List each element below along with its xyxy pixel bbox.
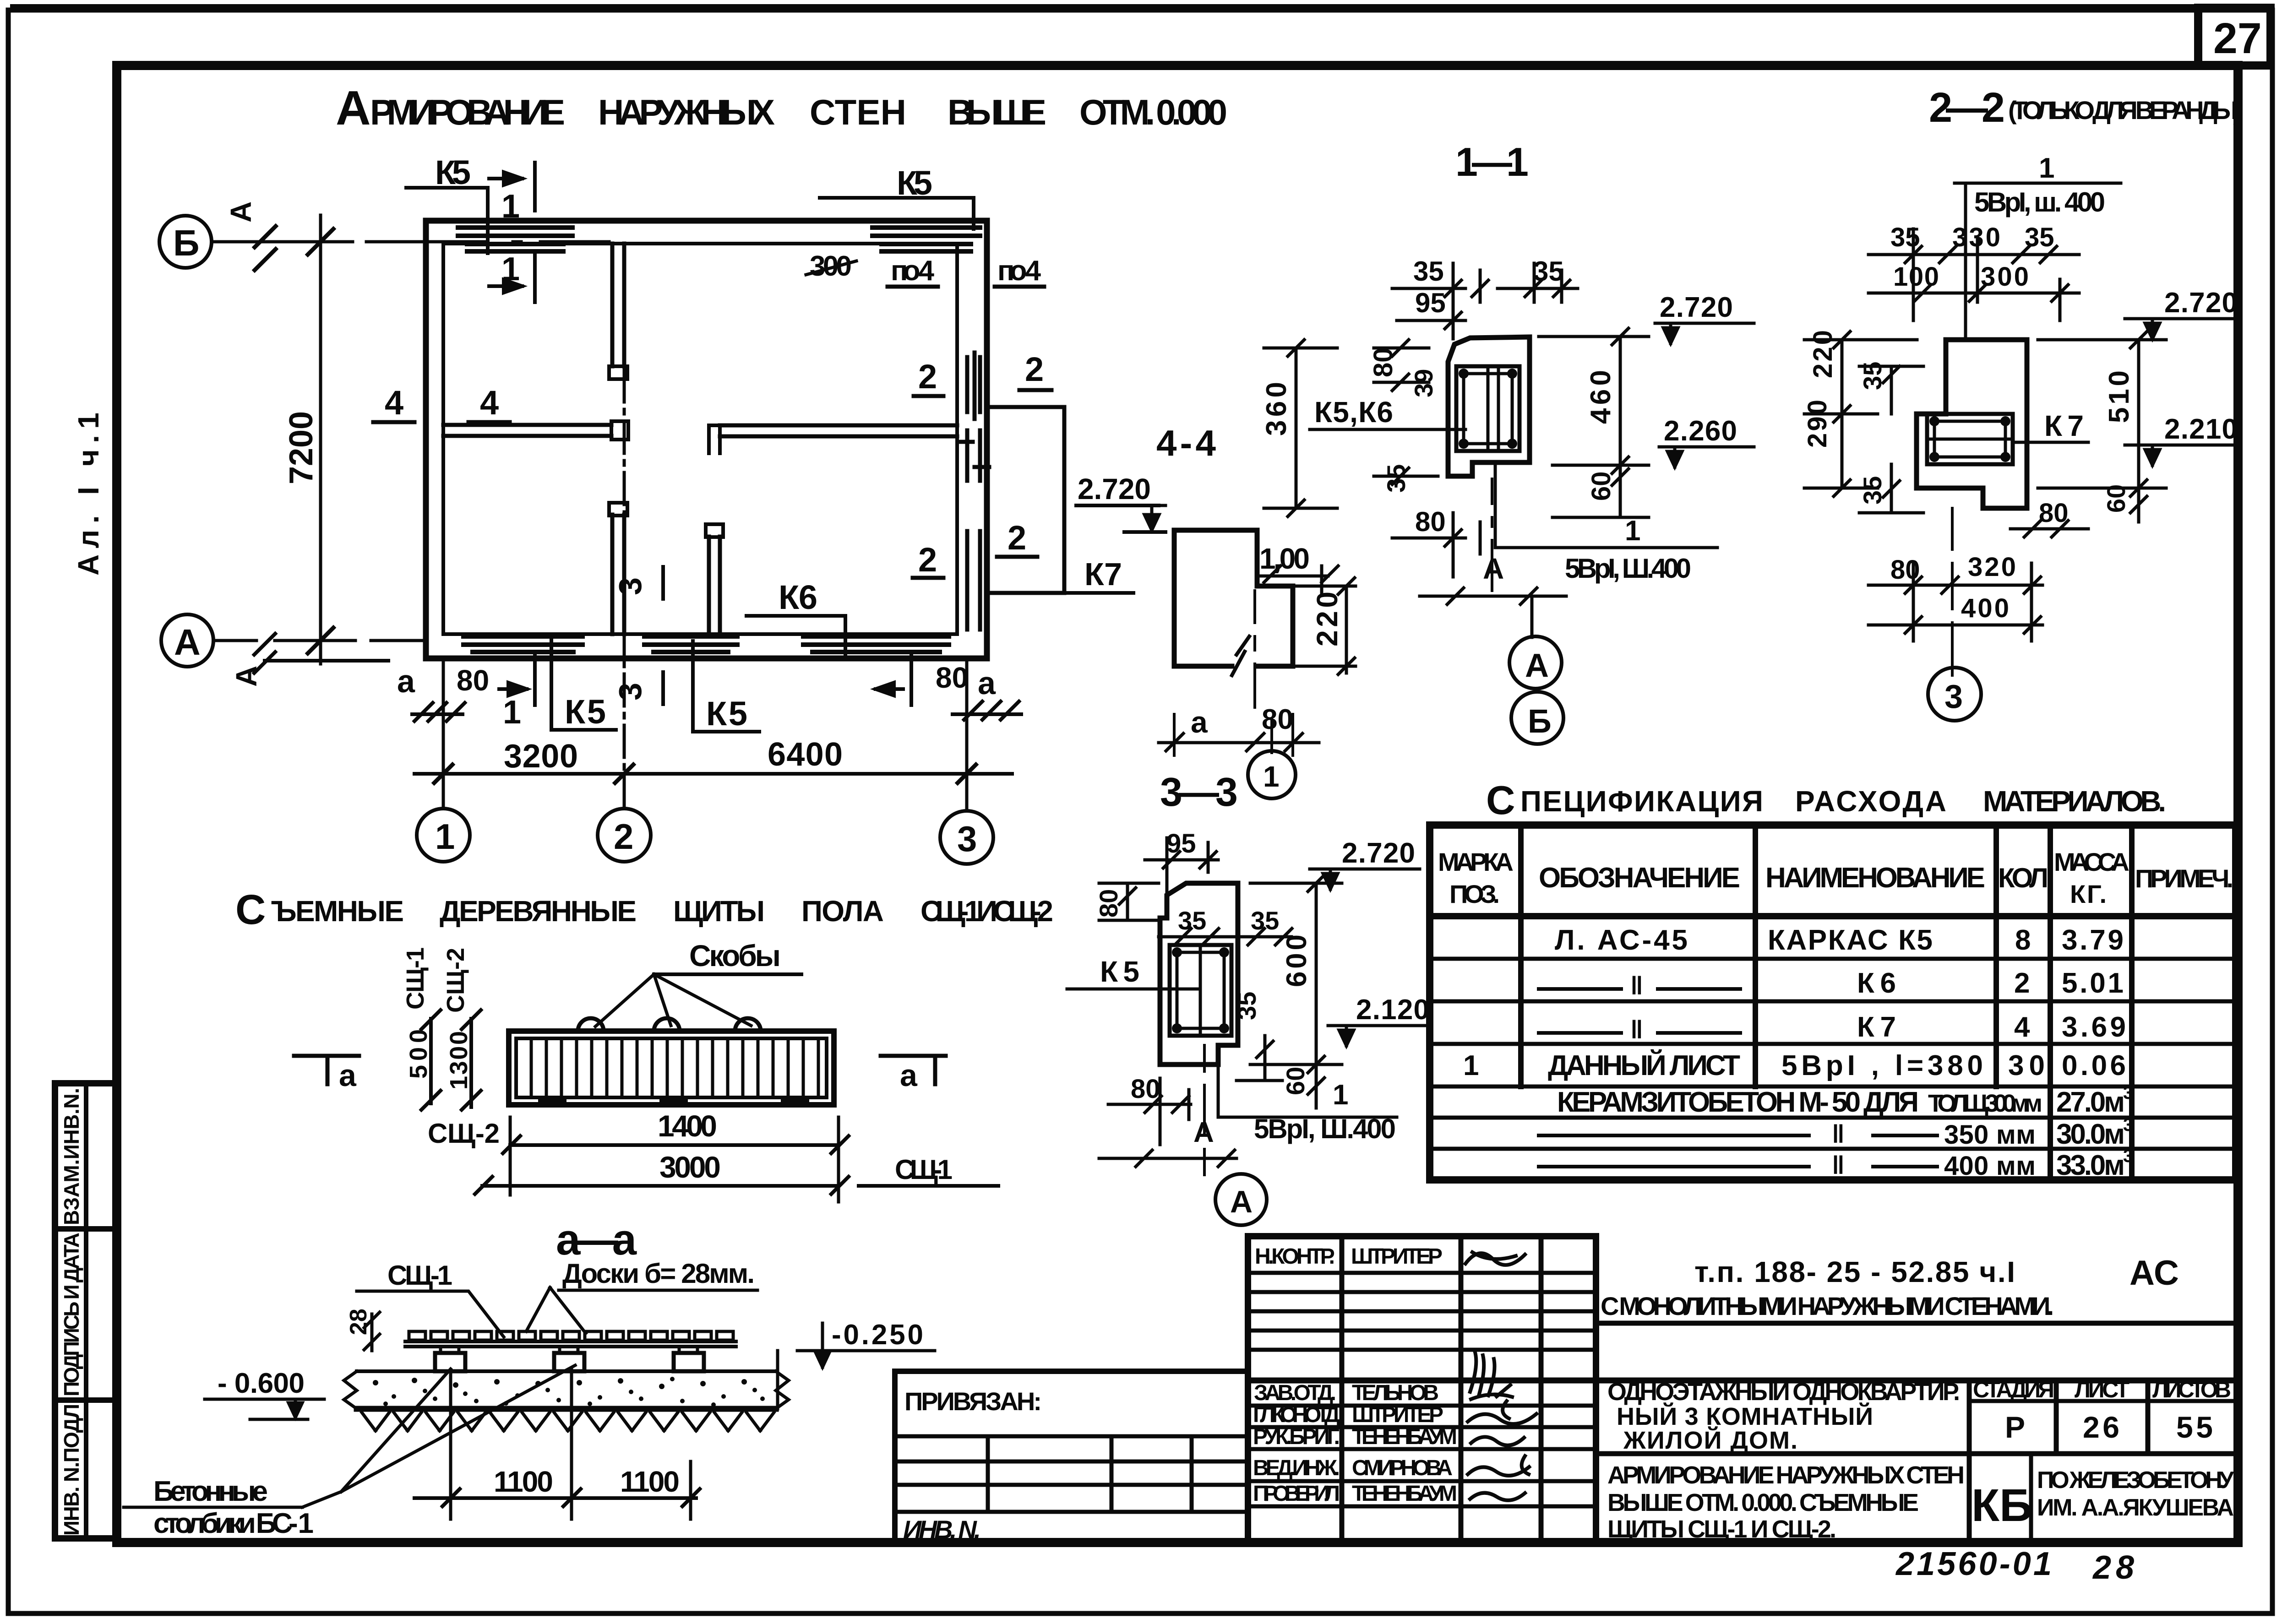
vertical dim lines for 500/1300 [421, 1010, 481, 1110]
svg-text:СЩ- 1 И СЩ- 2: СЩ- 1 И СЩ- 2 [920, 895, 1053, 928]
svg-text:‖: ‖ [1832, 1151, 1845, 1179]
svg-text:4: 4 [385, 384, 403, 422]
svg-text:КОЛ: КОЛ [1998, 863, 2048, 893]
svg-text:60: 60 [1281, 1067, 1310, 1095]
svg-text:3000: 3000 [659, 1150, 721, 1184]
inner wall bottom line [443, 632, 957, 636]
svg-text:а—а: а—а [556, 1215, 637, 1264]
svg-text:а: а [900, 1058, 918, 1093]
svg-text:по 4: по 4 [891, 255, 935, 287]
door jamb cap horizontal wall left [611, 421, 628, 440]
interior wall vertical upper (axis 2) [612, 244, 624, 366]
svg-text:2.720: 2.720 [1342, 837, 1415, 869]
svg-text:(ТОЛЬКО ДЛЯ ВЕРАНДЫ): (ТОЛЬКО ДЛЯ ВЕРАНДЫ) [2008, 96, 2242, 125]
2-2 elevation 2.210 [2125, 413, 2239, 465]
svg-text:600: 600 [1281, 934, 1313, 987]
svg-text:1: 1 [501, 188, 520, 225]
3-3 cage mid bar [1199, 945, 1202, 1036]
svg-text:ИМ. А.А.ЯКУШЕВА: ИМ. А.А.ЯКУШЕВА [2037, 1494, 2234, 1521]
bottom dimension line 3200/6400 [414, 772, 1012, 776]
svg-text:АС: АС [2130, 1254, 2179, 1293]
rebar hatch right wall lower [967, 531, 980, 630]
section mark 2 lower inside [913, 541, 943, 579]
section mark 2 upper outside [1019, 350, 1051, 390]
svg-text:3: 3 [2123, 1083, 2133, 1103]
3-3 dim 95 [1145, 829, 1218, 897]
svg-text:- 0.600: - 0.600 [218, 1368, 305, 1399]
inner wall left line [441, 244, 445, 634]
earth hatch [362, 1412, 774, 1431]
deck strip [405, 1342, 736, 1347]
3-3 rebar leader 1 [1218, 1065, 1397, 1117]
svg-text:1100: 1100 [494, 1465, 553, 1498]
svg-text:ПЕЦИФИКАЦИЯ: ПЕЦИФИКАЦИЯ [1520, 785, 1763, 818]
panel hook 1 [578, 1018, 604, 1031]
door jamb cap lower wall [609, 503, 627, 516]
svg-text:С: С [1486, 777, 1515, 823]
svg-text:95: 95 [1166, 829, 1196, 858]
svg-text:Н.КОНТР.: Н.КОНТР. [1255, 1244, 1335, 1269]
svg-text:220: 220 [1808, 330, 1838, 378]
1-1 bottom ticks [1420, 588, 1566, 637]
2-2 elevation 2.720 [2125, 287, 2239, 339]
label Бетонные столбики БС-1 [153, 1476, 314, 1539]
svg-text:320: 320 [1968, 552, 2016, 582]
dim 28 rotated [345, 1309, 380, 1351]
3-3 rebar cage inner [1177, 952, 1224, 1028]
svg-text:А: А [174, 622, 201, 663]
svg-text:0.06: 0.06 [2062, 1050, 2126, 1081]
svg-text:Б: Б [1528, 703, 1552, 740]
svg-text:ОТМ. 0.000: ОТМ. 0.000 [1079, 92, 1227, 132]
svg-text:2: 2 [1008, 519, 1026, 557]
svg-text:ЪЕМНЫЕ: ЪЕМНЫЕ [271, 895, 404, 928]
svg-text:ШТРИТЕР: ШТРИТЕР [1352, 1403, 1443, 1427]
svg-text:1400: 1400 [658, 1109, 717, 1143]
label Доски б=28мм [526, 1258, 757, 1333]
1-1 rebar leader 1 [1495, 462, 1717, 548]
svg-text:4-4: 4-4 [1156, 423, 1216, 463]
svg-text:т.п. 188- 25 - 52.85 ч.I: т.п. 188- 25 - 52.85 ч.I [1694, 1255, 2015, 1288]
section mark 2 lower outside [997, 519, 1037, 557]
svg-text:ПРИМЕЧ.: ПРИМЕЧ. [2135, 864, 2233, 893]
svg-text:Бетонные: Бетонные [153, 1476, 268, 1507]
svg-text:А: А [336, 81, 371, 135]
svg-text:3: 3 [2123, 1115, 2133, 1135]
svg-text:РУК.БРИГ.: РУК.БРИГ. [1253, 1425, 1340, 1449]
организация [2037, 1467, 2234, 1521]
svg-text:3200: 3200 [504, 738, 578, 775]
section mark 1 top outer [489, 163, 535, 211]
svg-text:НЫЙ 3 КОМНАТНЫЙ: НЫЙ 3 КОМНАТНЫЙ [1617, 1402, 1873, 1430]
1-1 wall profile [1448, 337, 1530, 476]
svg-text:3: 3 [612, 577, 648, 595]
2-2 axis circle 3 [1928, 668, 1981, 721]
axis circle 3 [940, 811, 993, 864]
panel inner rect [516, 1038, 827, 1097]
svg-text:ТЕНЕНБАУМ: ТЕНЕНБАУМ [1352, 1482, 1457, 1506]
2-2 axis line down to circle 3 [1951, 508, 1954, 675]
svg-text:ВЫШЕ ОТМ. 0.000. СЪЕМНЫЕ: ВЫШЕ ОТМ. 0.000. СЪЕМНЫЕ [1607, 1489, 1919, 1516]
axis 2 vertical line [623, 244, 626, 809]
2-2 dim 60 rotated [2102, 484, 2147, 522]
2-2 dim 35 rotated lower [1858, 464, 1923, 513]
spec header МАССА КГ [2054, 847, 2130, 908]
interior wall vertical small (lower middle) [709, 537, 720, 634]
svg-text:1100: 1100 [620, 1465, 680, 1498]
svg-text:ПРОВЕРИЛ: ПРОВЕРИЛ [1253, 1482, 1340, 1506]
axis А circle [161, 614, 213, 667]
axis 1 vertical line [442, 658, 445, 809]
svg-text:2.260: 2.260 [1664, 415, 1737, 447]
2-2 dim 290 rotated [1803, 340, 1917, 496]
dim ticks bottom-left [412, 703, 465, 721]
3-3 К5 label [1067, 955, 1200, 989]
spec row 5: Керамзитобетон М-50 для толщ.300мм 27.0м3 [1557, 1083, 2133, 1118]
svg-text:500: 500 [405, 1029, 432, 1079]
main block grid [1596, 1380, 2236, 1543]
svg-text:8: 8 [2015, 924, 2031, 956]
rebar hatch bottom-middle [644, 636, 737, 652]
svg-text:5.01: 5.01 [2062, 967, 2124, 999]
svg-text:2: 2 [918, 358, 937, 396]
label по 4 outer [995, 255, 1044, 287]
svg-text:460: 460 [1585, 370, 1617, 424]
svg-text:220: 220 [1311, 592, 1344, 646]
label СЩ-1 dim [859, 1154, 998, 1186]
svg-text:А: А [224, 201, 257, 223]
svg-text:3: 3 [612, 683, 648, 701]
3-3 elevation 2.120 [1328, 994, 1429, 1046]
axis circle 1 [417, 809, 470, 862]
outer wall right [984, 221, 990, 658]
2-2 cage mid bar [1927, 438, 2013, 441]
svg-text:столбики БС- 1: столбики БС- 1 [153, 1508, 314, 1539]
elevation -0.250 [778, 1319, 935, 1409]
К5 leader top-left [406, 188, 488, 253]
К6 label [746, 578, 845, 655]
door cap small wall [706, 524, 723, 537]
svg-text:а: а [339, 1058, 357, 1093]
стадия лист листов headers [1973, 1377, 2231, 1402]
svg-text:100: 100 [1893, 262, 1939, 292]
1-1 elevation 2.720 [1655, 292, 1754, 343]
2-2 dim 80 right [2010, 498, 2088, 537]
deck boards row [409, 1331, 733, 1340]
svg-text:Р: Р [2005, 1410, 2025, 1444]
svg-text:1,00: 1,00 [1259, 542, 1310, 575]
panel feet [538, 1099, 809, 1105]
svg-text:СМИРНОВА: СМИРНОВА [1352, 1456, 1453, 1480]
svg-text:А: А [1230, 1184, 1253, 1219]
dim ticks on 7200 [308, 229, 333, 653]
section mark 2 upper inside [914, 358, 943, 396]
cut mark Та left [294, 1056, 359, 1093]
concrete band bottom line [357, 1406, 776, 1412]
panel hook 3 [735, 1018, 761, 1031]
label 300 crossed [806, 250, 856, 282]
svg-text:К5: К5 [435, 153, 471, 191]
svg-text:ЛИСТОВ: ЛИСТОВ [2152, 1377, 2231, 1402]
svg-text:С МОНОЛИТНЫМИ НАРУЖНЫМИ СТЕН: С МОНОЛИТНЫМИ НАРУЖНЫМИ СТЕНАМИ. [1601, 1292, 2054, 1320]
project cell top [1596, 1321, 2236, 1326]
svg-text:ЖИЛОЙ ДОМ.: ЖИЛОЙ ДОМ. [1623, 1426, 1797, 1454]
svg-text:ВЕД.ИНЖ.: ВЕД.ИНЖ. [1253, 1456, 1340, 1480]
svg-text:ПОЗ.: ПОЗ. [1449, 880, 1500, 908]
svg-text:КБ: КБ [1972, 1480, 2032, 1531]
svg-text:2: 2 [614, 816, 633, 857]
svg-text:СЩ-1: СЩ-1 [895, 1154, 953, 1185]
svg-text:2.210: 2.210 [2164, 413, 2238, 445]
dim ticks bottom-right [953, 701, 1021, 720]
section mark 3 lower [612, 672, 663, 704]
svg-text:80: 80 [936, 661, 968, 694]
interior wall horizontal left [443, 425, 611, 436]
svg-text:‖: ‖ [1630, 1015, 1643, 1044]
2-2 cage dots [1929, 416, 2010, 462]
3-3 dash axis down [1203, 1045, 1206, 1175]
axis Б dash-dot line [212, 240, 609, 244]
svg-text:‖: ‖ [1832, 1119, 1845, 1148]
svg-text:А: А [1525, 647, 1549, 684]
svg-text:3.79: 3.79 [2062, 924, 2124, 956]
signature table [1248, 1236, 1596, 1543]
2-2 rebar cage outer [1927, 414, 2013, 464]
3-3 dim 35 rotated lower [1232, 992, 1282, 1081]
panel outer rect [509, 1031, 834, 1105]
1-1 cage mid vertical bar [1488, 366, 1498, 451]
3-3 dim 80 bottom [1108, 1074, 1191, 1145]
dim 3000 [475, 1117, 849, 1202]
svg-text:35: 35 [1890, 223, 1920, 252]
1-1 dim 80 bottom [1392, 506, 1480, 577]
section cut ticks right wall middle [958, 430, 989, 481]
svg-text:К6: К6 [779, 578, 817, 616]
interior wall vertical lower (axis 2) [612, 515, 624, 634]
svg-text:2: 2 [918, 541, 937, 579]
spec row 7: -"- 400мм 33.0м3 [1539, 1146, 2133, 1181]
svg-text:80: 80 [1890, 555, 1920, 585]
axis circle 1 (4-4) [1248, 751, 1296, 798]
svg-text:1: 1 [435, 816, 455, 857]
svg-text:300: 300 [1981, 262, 2029, 292]
svg-text:ПОЛА: ПОЛА [801, 895, 884, 928]
cut mark аТ right [881, 1056, 946, 1093]
dim 1400 [503, 1109, 849, 1153]
svg-text:-0.250: -0.250 [832, 1319, 923, 1351]
elevation -0.600 [205, 1368, 324, 1419]
svg-text:К7: К7 [1084, 556, 1122, 592]
svg-text:ЗАВ.ОТД.: ЗАВ.ОТД. [1254, 1381, 1336, 1405]
svg-text:5ВрI, Ш.400: 5ВрI, Ш.400 [1254, 1113, 1396, 1144]
veranda column outline [987, 407, 1064, 593]
svg-text:7200: 7200 [283, 411, 320, 484]
inner wall top line [443, 242, 957, 245]
svg-text:‖: ‖ [1630, 971, 1643, 1000]
стадия лист листов values [2005, 1410, 2213, 1444]
break mark left [344, 1371, 357, 1409]
2-2 wall profile [1917, 340, 2027, 508]
svg-text:СЩ-1: СЩ-1 [387, 1260, 452, 1291]
svg-text:ОБОЗНАЧЕНИЕ: ОБОЗНАЧЕНИЕ [1539, 862, 1740, 894]
2-2 dim 510 rotated [2038, 331, 2166, 496]
svg-text:ТЕНЕНБАУМ: ТЕНЕНБАУМ [1352, 1425, 1457, 1449]
svg-text:5ВрI, Ш.400: 5ВрI, Ш.400 [1565, 553, 1691, 584]
section mark 1 bottom-left pair [499, 655, 535, 705]
svg-text:Л. АС-45: Л. АС-45 [1555, 924, 1688, 956]
leader lines to posts [124, 1365, 575, 1507]
vertical dimension line 7200 [293, 215, 353, 664]
svg-text:ОДНОЭТАЖНЫЙ ОДНОКВАРТИР.: ОДНОЭТАЖНЫЙ ОДНОКВАРТИР. [1607, 1378, 1960, 1406]
svg-text:КЕРАМЗИТОБЕТОН М- 50 ДЛЯ: КЕРАМЗИТОБЕТОН М- 50 ДЛЯ [1557, 1086, 1919, 1118]
label Скобы [595, 939, 801, 1027]
spec row 6: -"- 350мм 30.0м3 [1539, 1115, 2133, 1150]
elevation 2.720 plan [1076, 473, 1166, 532]
section mark 4 left outside [373, 384, 414, 422]
door jamb L horizontal wall right [709, 425, 720, 453]
concrete band stipple [373, 1377, 765, 1407]
а 80 dim under 4-4 [1159, 704, 1319, 755]
3-3 dim 60 rotated [1281, 1065, 1324, 1108]
section mark 1 bottom right [876, 655, 911, 705]
1-1 dim 60 rotated [1552, 465, 1649, 517]
svg-text:5ВрI, ш. 400: 5ВрI, ш. 400 [1974, 187, 2105, 217]
break mark in 4-4 bottom [1232, 636, 1249, 675]
svg-text:80: 80 [1415, 506, 1446, 537]
2-2 dim 80 bottom [1868, 555, 2042, 593]
svg-text:МАССА: МАССА [2054, 847, 2130, 876]
1-1 rebar cage inner [1464, 374, 1512, 444]
svg-text:А: А [1483, 552, 1504, 585]
svg-text:ДЕРЕВЯННЫЕ: ДЕРЕВЯННЫЕ [440, 895, 637, 928]
handwritten 21560-01 28 [1895, 1546, 2134, 1586]
section cut line 2 upper [973, 353, 977, 419]
svg-text:по 4: по 4 [997, 255, 1041, 287]
2-2 dim 220 rotated [1808, 330, 1850, 422]
svg-text:2.720: 2.720 [2164, 287, 2238, 319]
outer wall top [426, 218, 987, 224]
section 4-4 wall profile [1174, 530, 1293, 666]
svg-text:27: 27 [2213, 14, 2262, 63]
svg-text:ДАННЫЙ ЛИСТ: ДАННЫЙ ЛИСТ [1548, 1049, 1740, 1081]
svg-text:2.720: 2.720 [1660, 292, 1733, 323]
dashed axis of 4-4 [1255, 591, 1272, 753]
svg-text:3.69: 3.69 [2062, 1011, 2126, 1043]
2-2 dim 400 [1868, 563, 2042, 641]
svg-text:НАИМЕНОВАНИЕ: НАИМЕНОВАНИЕ [1765, 862, 1985, 894]
svg-text:ПО ЖЕЛЕЗОБЕТОНУ: ПО ЖЕЛЕЗОБЕТОНУ [2037, 1467, 2234, 1494]
svg-text:ИНВ. N.ПОДЛ: ИНВ. N.ПОДЛ [60, 1404, 83, 1536]
svg-text:ЩИТЫ СЩ-1 И СЩ-2.: ЩИТЫ СЩ-1 И СЩ-2. [1607, 1515, 1836, 1543]
svg-text:ЛИСТ: ЛИСТ [2075, 1377, 2130, 1402]
concrete band top line [357, 1369, 776, 1373]
1-1 rebar cage outer [1456, 366, 1520, 451]
3-3 elevation 2.720 [1310, 837, 1420, 889]
section mark 3 upper [612, 567, 663, 599]
svg-text:ВЗАМ.ИНВ.N.: ВЗАМ.ИНВ.N. [60, 1088, 83, 1225]
1-1 К5,К6 label [1310, 396, 1465, 429]
spec row 4: 1 Данный лист 5ВрI l=380 30 0.06 [1463, 1049, 2126, 1081]
svg-text:ГЛ.КОН.ОТД: ГЛ.КОН.ОТД [1253, 1403, 1340, 1427]
outer wall left [423, 221, 429, 658]
объект текст [1607, 1378, 1960, 1454]
post 3 [674, 1347, 704, 1371]
signature squiggles [1465, 1252, 1536, 1500]
svg-text:60: 60 [2102, 484, 2130, 513]
rebar hatch bottom-right [803, 636, 949, 652]
svg-text:АРМИРОВАНИЕ НАРУЖНЫХ СТЕН: АРМИРОВАНИЕ НАРУЖНЫХ СТЕН [1607, 1461, 1965, 1489]
К7 label plan [1064, 556, 1133, 593]
3-3 dim 600 rotated [1250, 875, 1342, 1073]
К5 label bottom-middle [693, 641, 759, 733]
svg-text:350 мм: 350 мм [1944, 1120, 2036, 1150]
svg-text:Доски б= 28мм.: Доски б= 28мм. [562, 1258, 755, 1289]
svg-text:МАРКА: МАРКА [1438, 847, 1514, 876]
svg-text:НАРУЖНЫХ: НАРУЖНЫХ [598, 92, 775, 132]
svg-text:ПОДПИСЬ И ДАТА: ПОДПИСЬ И ДАТА [60, 1233, 83, 1396]
1-1 left dim lines [1374, 340, 1429, 391]
svg-text:КГ.: КГ. [2070, 880, 2107, 908]
svg-text:РМИРОВАНИЕ: РМИРОВАНИЕ [370, 92, 565, 132]
svg-text:35: 35 [1251, 906, 1279, 935]
axis 3 vertical line [965, 658, 969, 811]
post 2 [554, 1347, 584, 1371]
elevation 2.720 for 4-4 [1159, 504, 1166, 507]
section mark 1 top inner [489, 254, 535, 302]
привязан table [895, 1371, 1248, 1543]
svg-text:2—2: 2—2 [1929, 84, 2005, 131]
2-2 rebar cage inner [1934, 421, 2005, 457]
svg-text:3: 3 [2123, 1146, 2133, 1166]
1-1 dim 360 rotated [1261, 340, 1337, 516]
svg-text:ТЕЛЬНОВ: ТЕЛЬНОВ [1352, 1381, 1439, 1405]
svg-text:СЩ-2: СЩ-2 [442, 948, 469, 1013]
spec row 1: Л. АС-45 Каркас К5 8 3.79 [1555, 924, 2124, 956]
svg-text:К5,К6: К5,К6 [1314, 396, 1393, 429]
rebar hatch bottom-left [463, 636, 583, 652]
2-2 dims 35 330 35 [1868, 223, 2079, 263]
dim 1,00 for 4-4 [1257, 542, 1338, 595]
3-3 axis circle А [1215, 1174, 1267, 1225]
svg-text:ЩИТЫ: ЩИТЫ [673, 895, 765, 928]
svg-text:35: 35 [1858, 476, 1887, 505]
left margin stamp table [55, 1083, 117, 1538]
dim 1100 1100 [414, 1369, 700, 1519]
1-1 top dim lines [1392, 280, 1578, 297]
svg-text:К5: К5 [706, 695, 747, 733]
main title АРМИРОВАНИЕ НАРУЖНЫХ СТЕН ВЫШЕ ОТМ. 0.000 [336, 81, 1227, 135]
svg-text:510: 510 [2103, 370, 2135, 423]
rebar hatch top-right [872, 228, 980, 251]
svg-text:1: 1 [501, 251, 520, 288]
3-3 bottom ticks [1099, 1150, 1236, 1167]
svg-text:а: а [978, 665, 996, 701]
svg-text:400 мм: 400 мм [1944, 1151, 2036, 1181]
1-1 dim 35 lower-left rotated [1374, 464, 1438, 493]
spec row 3: -"- К7 4 3.69 [1539, 1011, 2126, 1044]
svg-text:1—1: 1—1 [1455, 139, 1529, 185]
svg-text:400: 400 [1961, 593, 2009, 623]
1-1 axis circle А [1509, 636, 1562, 689]
svg-text:4: 4 [2014, 1011, 2030, 1043]
svg-text:К5: К5 [565, 693, 606, 731]
svg-text:1: 1 [1263, 760, 1280, 793]
2-2 dims 100 300 [1868, 229, 2079, 320]
К5 label bottom-left [551, 634, 616, 731]
signature table texts [1253, 1244, 1457, 1506]
svg-text:1: 1 [1463, 1050, 1479, 1081]
3-3 dim 80 rotated [1094, 883, 1159, 920]
